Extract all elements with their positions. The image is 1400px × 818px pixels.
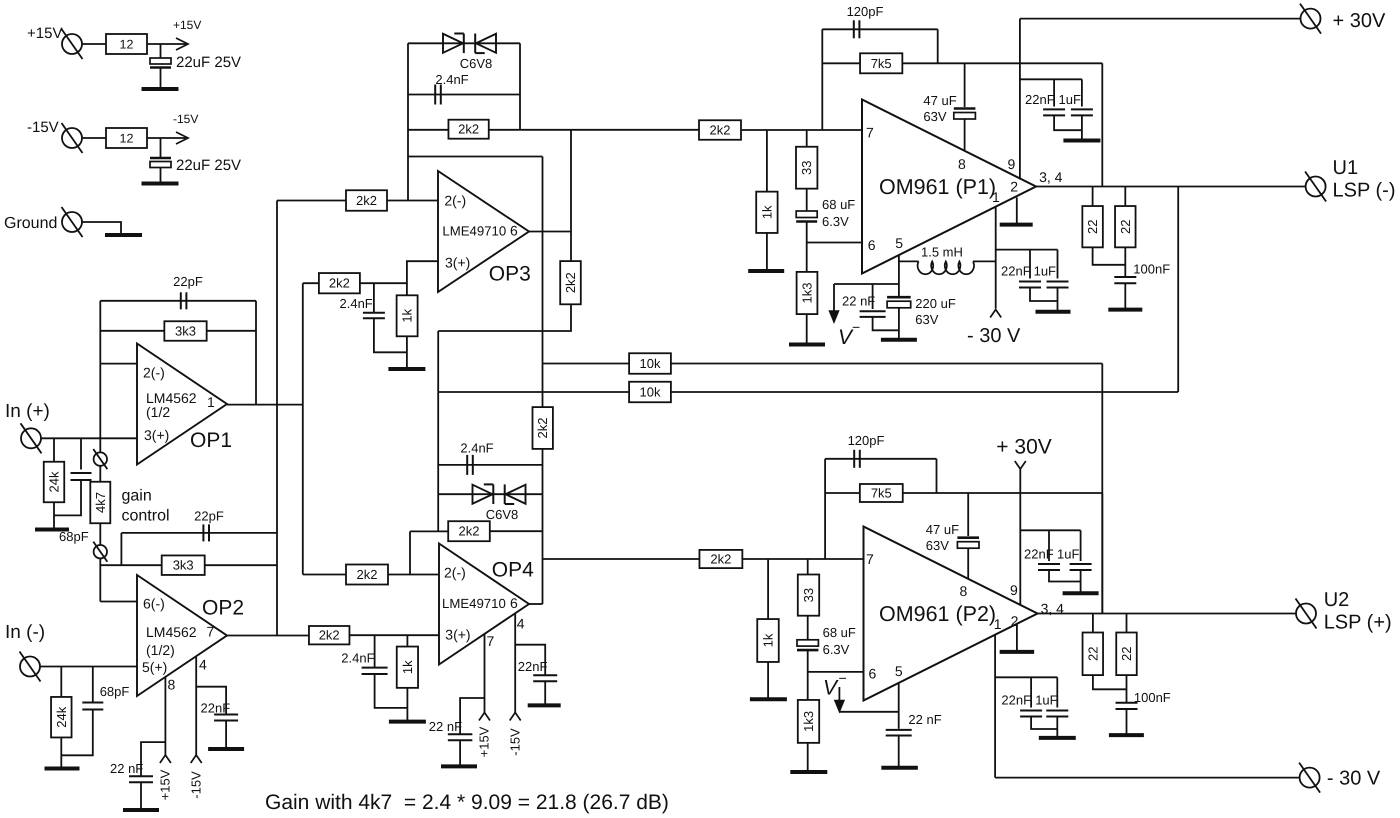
ground	[790, 770, 827, 774]
wire	[406, 336, 408, 367]
svg-text:6: 6	[510, 595, 518, 611]
capacitor 22nF (P1 +30V)	[1053, 79, 1055, 106]
svg-text:- 30 V: - 30 V	[967, 325, 1021, 347]
wire P1 pin8	[964, 119, 966, 151]
wire	[822, 62, 860, 64]
capacitor 22nF (OP2 pin8)	[129, 775, 153, 777]
terminal +30V	[1301, 9, 1321, 29]
capacitor 2.4nF (OP4 3+)	[374, 635, 376, 667]
wire	[1124, 283, 1126, 308]
capacitor 120pF (P2)	[853, 450, 855, 468]
ground	[389, 720, 426, 724]
op-amp OP1 LM4562	[137, 344, 227, 465]
wire P1 pin9	[1019, 19, 1021, 180]
svg-text:- 30 V: - 30 V	[1327, 768, 1381, 790]
wire	[303, 574, 346, 576]
svg-text:22: 22	[1085, 647, 1100, 661]
svg-text:2(-): 2(-)	[143, 365, 165, 381]
terminal -15V input	[62, 128, 82, 148]
wire	[902, 62, 1102, 64]
wire bus OP1-out to OP3/OP4	[302, 283, 304, 574]
svg-text:22nF: 22nF	[1025, 92, 1055, 107]
svg-text:10k: 10k	[640, 356, 661, 371]
wire	[1080, 570, 1082, 592]
ground	[35, 528, 69, 532]
wire	[1101, 63, 1103, 186]
wire	[80, 438, 82, 469]
arrow -15V rail	[176, 132, 188, 144]
svg-text:2: 2	[1010, 179, 1018, 195]
capacitor 2.4nF (OP3 3+)	[373, 283, 375, 312]
ground	[441, 764, 477, 768]
wire OP2 power pin 4	[195, 657, 197, 756]
svg-text:6: 6	[868, 237, 876, 253]
wire	[1126, 709, 1128, 734]
capacitor 22pF (OP2)	[202, 524, 204, 541]
wire	[120, 533, 122, 565]
svg-text:8: 8	[960, 583, 968, 599]
svg-text:−: −	[839, 670, 847, 686]
wire	[61, 710, 93, 756]
wire P1 pin6	[807, 242, 862, 244]
terminal In (-)	[20, 657, 40, 677]
capacitor 68pF (In-)	[82, 702, 103, 704]
svg-text:LME49710: LME49710	[442, 224, 506, 239]
svg-text:−: −	[852, 319, 860, 335]
capacitor 22nF (P2 -30V)	[1030, 677, 1032, 707]
wire OP2 22pF branch	[121, 532, 277, 534]
wire 2.4nF branch (OP3)	[408, 94, 520, 96]
wire	[140, 782, 142, 808]
wire	[570, 130, 572, 232]
svg-text:LME49710: LME49710	[442, 596, 506, 611]
svg-text:4: 4	[517, 616, 525, 632]
svg-text:7: 7	[207, 624, 215, 640]
svg-text:22uF 25V: 22uF 25V	[176, 157, 241, 174]
svg-text:1k: 1k	[761, 633, 776, 647]
resistor 2k2 OP4 inverting input	[346, 565, 388, 585]
svg-text:+ 30V: + 30V	[1333, 10, 1386, 32]
terminal gain control lower	[94, 545, 107, 558]
wire	[255, 301, 257, 405]
wire	[92, 667, 94, 703]
svg-text:2k2: 2k2	[357, 567, 378, 582]
wire	[438, 391, 629, 393]
svg-text:24k: 24k	[47, 471, 62, 492]
svg-text:Gain with 4k7 = 2.4 * 9.09 =: Gain with 4k7 = 2.4 * 9.09 = 21.8 (26.7 …	[265, 791, 669, 814]
resistor 24k (In+)	[44, 462, 65, 503]
svg-text:22 nF: 22 nF	[842, 294, 875, 309]
inductor 1.5 mH	[899, 260, 919, 262]
resistor 3k3 (OP1)	[164, 321, 206, 341]
svg-text:6: 6	[869, 666, 877, 682]
resistor 22 (P1 zobel a)	[1092, 187, 1094, 207]
capacitor 100nF (P1 zobel)	[1124, 247, 1126, 277]
wire	[742, 558, 863, 560]
svg-text:6.3V: 6.3V	[822, 214, 849, 229]
svg-text:12: 12	[120, 38, 134, 52]
svg-text:V: V	[823, 677, 839, 700]
svg-text:22: 22	[1085, 219, 1100, 233]
svg-text:6: 6	[510, 223, 518, 239]
ground	[1108, 308, 1142, 312]
svg-text:OM961 (P1): OM961 (P1)	[879, 175, 996, 199]
resistor 2k2 OP3-out cross-coupling	[560, 261, 581, 304]
svg-text:47 uF: 47 uF	[923, 93, 956, 108]
wire	[207, 330, 256, 332]
svg-text:4k7: 4k7	[93, 492, 108, 513]
wire	[459, 740, 461, 765]
svg-text:2k2: 2k2	[356, 193, 377, 208]
capacitor 47uF 63V (P2)	[967, 493, 969, 536]
wire OP3 feedback left	[407, 43, 409, 200]
wire OP3-out to P1 input	[489, 129, 699, 131]
resistor 2k2 P1 input	[699, 120, 741, 140]
wire	[205, 564, 277, 566]
svg-text:9: 9	[1010, 582, 1018, 598]
svg-text:12: 12	[120, 132, 134, 146]
svg-text:63V: 63V	[926, 538, 949, 553]
ground	[1000, 223, 1033, 227]
svg-text:9: 9	[1008, 156, 1016, 172]
terminal U2 LSP(+)	[1296, 604, 1316, 624]
svg-text:33: 33	[801, 588, 816, 602]
wire	[141, 742, 165, 775]
capacitor 22nF (OP4 pin4)	[533, 674, 557, 676]
svg-text:7k5: 7k5	[871, 486, 892, 501]
svg-text:1k: 1k	[400, 660, 415, 674]
svg-text:Ground: Ground	[4, 215, 57, 232]
wire OP3 2- node to cross bus	[408, 156, 543, 158]
wire P1 pin5	[898, 255, 900, 296]
power arrow -30V (P1)	[990, 310, 1001, 318]
svg-text:2.4nF: 2.4nF	[435, 72, 468, 87]
svg-text:OP4: OP4	[492, 559, 534, 582]
svg-text:control: control	[122, 508, 170, 525]
wire	[82, 222, 121, 234]
wire 120pF branch (P2)	[825, 458, 936, 460]
svg-text:U1: U1	[1333, 157, 1359, 179]
wire P2 +30V decoupling bracket	[1020, 529, 1080, 531]
wire	[936, 459, 938, 493]
svg-text:68 uF: 68 uF	[822, 197, 855, 212]
svg-text:7: 7	[866, 551, 874, 567]
svg-text:-15V: -15V	[173, 112, 198, 126]
svg-text:22pF: 22pF	[173, 274, 203, 289]
wire	[438, 304, 571, 331]
wire	[303, 282, 319, 284]
wire	[806, 222, 808, 272]
resistor 22 (P2 zobel b)	[1126, 614, 1128, 633]
wire P1 pin2	[1016, 198, 1018, 224]
svg-text:63V: 63V	[923, 109, 946, 124]
wire	[515, 645, 545, 675]
ground	[1063, 139, 1100, 143]
wire zener branch (OP3)	[408, 42, 520, 44]
ground	[105, 233, 142, 237]
wire P1 pin1 to -30V	[995, 207, 997, 309]
svg-text:4: 4	[199, 657, 207, 673]
wire	[160, 68, 162, 89]
wire	[898, 308, 900, 338]
svg-text:LSP (-): LSP (-)	[1333, 180, 1396, 202]
capacitor 120pF (P1)	[853, 20, 855, 38]
svg-text:2k2: 2k2	[319, 628, 340, 643]
wire	[824, 459, 826, 559]
power arrow +15V (OP2)	[160, 755, 171, 763]
resistor 1k (P2 input shunt)	[767, 559, 769, 619]
wire	[40, 666, 137, 668]
wire	[100, 330, 164, 332]
svg-text:22nF: 22nF	[201, 701, 231, 716]
wire 22pF branch	[100, 300, 256, 302]
resistor 1k (P1 input shunt)	[766, 130, 768, 192]
wire OP3 output	[529, 231, 571, 233]
svg-text:C6V8: C6V8	[460, 56, 493, 71]
svg-text:1: 1	[992, 189, 1000, 205]
svg-text:2.4nF: 2.4nF	[340, 296, 373, 311]
op-amp U2 OM961 (P2)	[864, 527, 1038, 701]
resistor 2k2 OP4 non-inverting input	[309, 626, 350, 644]
svg-text:22pF: 22pF	[194, 509, 224, 524]
resistor 1k3 (P2)	[798, 700, 819, 743]
svg-text:33: 33	[799, 160, 814, 174]
wire 120pF branch (P1)	[822, 28, 937, 30]
svg-text:8: 8	[168, 677, 176, 693]
svg-text:8: 8	[958, 156, 966, 172]
svg-text:7: 7	[866, 125, 874, 141]
capacitor 1uF (P2 -30V)	[1056, 677, 1058, 707]
svg-text:1k: 1k	[400, 308, 415, 322]
svg-text:+ 30V: + 30V	[996, 436, 1051, 459]
wire	[277, 200, 346, 202]
wire P2 pin8	[967, 548, 969, 579]
ground	[1000, 650, 1035, 654]
svg-text:2k2: 2k2	[458, 122, 479, 137]
capacitor 22nF (OP2 pin4)	[214, 714, 238, 716]
resistor 2k2 OP3 feedback	[448, 120, 488, 139]
arrow +15V rail	[176, 38, 188, 50]
wire P2 pin1 to -30V rail	[994, 635, 996, 778]
svg-text:68pF: 68pF	[59, 529, 89, 544]
wire	[387, 200, 438, 202]
ground	[789, 343, 825, 347]
svg-text:gain: gain	[122, 488, 152, 505]
wire -30V rail	[995, 777, 1300, 779]
svg-text:In (-): In (-)	[5, 622, 45, 643]
svg-text:5: 5	[895, 235, 903, 251]
arrow V- (P2)	[838, 687, 840, 701]
op-amp OP4 LME49710	[439, 544, 529, 665]
svg-text:5(+): 5(+)	[142, 659, 167, 675]
ground	[881, 766, 918, 770]
svg-text:7: 7	[487, 633, 495, 649]
svg-text:2(-): 2(-)	[444, 565, 466, 581]
capacitor 1uF (P2 +30V)	[1080, 530, 1082, 561]
terminal In (+)	[21, 428, 41, 448]
wire	[1093, 675, 1127, 689]
wire	[460, 698, 484, 734]
ground	[748, 269, 784, 273]
svg-text:OP2: OP2	[202, 597, 244, 620]
wire	[160, 168, 162, 183]
svg-text:3k3: 3k3	[173, 558, 194, 573]
svg-text:LSP (+): LSP (+)	[1324, 612, 1392, 634]
wire OP4 output	[529, 603, 543, 605]
capacitor 22uF 25V (-15V)	[150, 157, 171, 160]
wire	[898, 736, 900, 767]
capacitor 100nF (P2 zobel)	[1126, 675, 1128, 702]
svg-text:1k3: 1k3	[801, 711, 816, 732]
wire	[100, 564, 161, 566]
wire	[388, 574, 439, 576]
wire	[160, 138, 162, 158]
resistor 7k5 (P2 feedback)	[860, 484, 903, 502]
wire 10k#1 down to P2 output	[1101, 364, 1103, 614]
svg-text:-15V: -15V	[27, 119, 59, 136]
wire	[1093, 247, 1126, 264]
wire	[873, 317, 899, 330]
svg-text:2k2: 2k2	[563, 272, 578, 293]
capacitor 1uF (P1 +30V)	[1081, 79, 1083, 106]
wire	[806, 314, 808, 343]
ground	[750, 697, 787, 701]
svg-text:24k: 24k	[54, 706, 69, 727]
wire OP1 inverting input	[100, 363, 137, 365]
ground	[142, 87, 179, 91]
wire	[99, 558, 101, 601]
svg-text:1uF: 1uF	[1034, 264, 1056, 279]
wire P2 -30V decoupling bracket	[995, 676, 1057, 678]
ground	[123, 808, 159, 812]
resistor 2k2 OP3 inverting input	[346, 190, 387, 211]
svg-text:7k5: 7k5	[871, 56, 892, 71]
wire	[82, 43, 106, 45]
wire	[360, 261, 438, 283]
wire OP4 feedback 2.4nF branch	[438, 464, 542, 466]
capacitor 68pF (In+)	[71, 472, 92, 474]
svg-text:2k2: 2k2	[710, 552, 731, 567]
capacitor 68uF 6.3V (P1)	[806, 189, 808, 211]
resistor 4k7 gain control	[90, 482, 110, 524]
svg-text:+15V: +15V	[27, 25, 62, 42]
capacitor 2.4nF (OP4 feedback)	[466, 455, 468, 475]
wire OP2 power pin 8	[164, 677, 166, 756]
svg-text:-15V: -15V	[507, 728, 522, 756]
ground	[881, 338, 917, 342]
capacitor 2.4nF (OP3 feedback)	[434, 85, 436, 105]
wire	[60, 738, 62, 768]
wire node to OP4 inverting network	[437, 331, 439, 531]
diodes C6V8 (OP3)	[443, 34, 463, 53]
svg-text:1: 1	[994, 616, 1002, 632]
wire	[196, 687, 226, 714]
svg-text:(1/2): (1/2)	[146, 642, 175, 658]
resistor 12 (-15V)	[106, 128, 147, 148]
wire	[147, 137, 186, 139]
op-amp OP3 LME49710	[438, 171, 529, 292]
svg-text:OP1: OP1	[190, 429, 232, 452]
wire	[349, 634, 439, 636]
capacitor 220uF 63V (P1)	[887, 296, 911, 299]
capacitor 22pF (OP1)	[180, 292, 182, 309]
op-amp OP2 LM4562	[137, 575, 227, 696]
svg-text:3, 4: 3, 4	[1039, 169, 1063, 185]
resistor 24k (In-)	[51, 697, 72, 738]
wire	[408, 129, 449, 131]
wire P1 output	[1036, 186, 1306, 188]
svg-text:22: 22	[1119, 647, 1134, 661]
svg-text:68pF: 68pF	[100, 684, 130, 699]
svg-text:-15V: -15V	[188, 771, 203, 799]
svg-text:22uF 25V: 22uF 25V	[176, 54, 241, 71]
wire OP2 output	[227, 635, 309, 637]
wire	[490, 530, 543, 532]
capacitor 22nF (P2 +30V)	[1048, 530, 1050, 561]
svg-text:220 uF: 220 uF	[915, 296, 956, 311]
resistor 1k (OP3 3+)	[406, 283, 408, 295]
wire V- (P2)	[839, 711, 898, 713]
wire	[1101, 493, 1103, 614]
wire	[1057, 288, 1059, 311]
ground	[528, 703, 561, 707]
wire	[570, 232, 572, 262]
svg-text:22nF: 22nF	[1024, 547, 1054, 562]
svg-text:1uF: 1uF	[1059, 92, 1081, 107]
wire bus OP2-out to OP3 inverting	[276, 201, 278, 636]
svg-text:1k3: 1k3	[800, 283, 815, 304]
svg-text:22 nF: 22 nF	[908, 712, 941, 727]
wire	[519, 43, 521, 130]
svg-text:63V: 63V	[915, 312, 938, 327]
svg-text:3(+): 3(+)	[445, 627, 470, 643]
svg-text:47 uF: 47 uF	[926, 522, 959, 537]
capacitor 1uF (P1 -30V)	[1057, 250, 1059, 279]
svg-text:22nF: 22nF	[518, 659, 548, 674]
wire gain chain	[99, 364, 101, 453]
wire	[741, 129, 862, 131]
resistor 22 (P1 zobel b)	[1124, 187, 1126, 207]
svg-text:U2: U2	[1324, 589, 1350, 611]
svg-text:In (+): In (+)	[5, 401, 50, 422]
wire 10k#2 to P1 output	[1177, 187, 1179, 393]
wire	[937, 29, 939, 63]
wire	[147, 43, 186, 45]
svg-text:2.4nF: 2.4nF	[341, 651, 374, 666]
resistor 33 (P1)	[806, 130, 808, 147]
capacitor 68uF 6.3V (P2)	[807, 616, 809, 640]
svg-text:2(-): 2(-)	[444, 193, 466, 209]
wire	[53, 438, 55, 462]
resistor 1k (OP4 3+)	[406, 635, 408, 646]
svg-text:3k3: 3k3	[175, 324, 196, 339]
resistor 12 (+15V)	[106, 34, 147, 54]
svg-text:1: 1	[207, 394, 215, 410]
svg-text:22nF: 22nF	[1001, 264, 1031, 279]
wire	[807, 650, 809, 700]
wire	[160, 44, 162, 58]
ground	[142, 182, 179, 186]
capacitor 22nF (P1 -30V)	[1029, 250, 1031, 279]
resistor 10k lower	[629, 382, 671, 403]
op-amp U1 OM961 (P1)	[862, 100, 1036, 274]
wire P2 output	[1038, 613, 1297, 615]
ground	[1039, 736, 1076, 740]
svg-text:LM4562: LM4562	[146, 624, 197, 640]
resistor 22 (P2 zobel a)	[1092, 614, 1094, 633]
wire	[807, 743, 809, 771]
svg-text:2k2: 2k2	[459, 524, 480, 539]
